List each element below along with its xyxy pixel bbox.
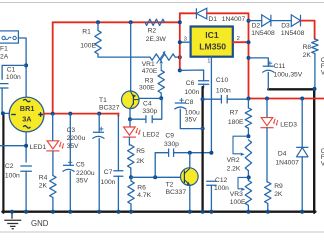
svg-text:LED1: LED1 — [30, 144, 47, 151]
node: rail / D4 — [300, 97, 304, 101]
node: C11 branch — [247, 56, 251, 60]
wire: base line to T2 — [131, 176, 182, 178]
node: ADJ / C12 / C9 line — [209, 151, 213, 155]
label D3 1N5408 — [281, 23, 305, 37]
resistor R8 — [312, 39, 318, 54]
svg-text:C8: C8 — [185, 99, 194, 106]
wire: bus to C10 — [203, 98, 222, 100]
svg-text:100n: 100n — [101, 179, 116, 186]
svg-text:100n: 100n — [216, 88, 231, 95]
label R4 2K — [39, 175, 48, 190]
node: VR2 / VR3 / wiper — [247, 175, 251, 179]
wire: T1 emitter column — [130, 22, 132, 91]
svg-text:VR3: VR3 — [230, 191, 243, 198]
svg-text:3A: 3A — [22, 115, 32, 124]
label C12 100n — [214, 177, 229, 192]
wire: C4 up to base node — [152, 98, 162, 119]
label R9 2K — [274, 183, 283, 198]
svg-text:R7: R7 — [230, 109, 239, 116]
node: C8 tap on bus — [201, 127, 205, 131]
wire: C3 to ground — [98, 139, 100, 212]
node: rail / T1 emitter — [129, 20, 133, 24]
wire: R8 to ground bus — [314, 54, 316, 89]
svg-text:1: 1 — [207, 58, 210, 64]
svg-text:180E: 180E — [228, 119, 244, 126]
node: rail / R1 — [96, 20, 100, 24]
node: VR1 right / input line — [175, 56, 180, 58]
node: C9 tap — [153, 175, 157, 179]
svg-text:35V: 35V — [185, 116, 197, 123]
svg-text:2K: 2K — [303, 52, 312, 59]
svg-text:LED3: LED3 — [280, 122, 297, 129]
capacitor C4 — [146, 115, 152, 123]
capacitor C1 — [0, 84, 9, 88]
svg-text:330p: 330p — [142, 108, 157, 115]
svg-text:BC327: BC327 — [99, 104, 120, 111]
node: +rail / C5 — [97, 112, 101, 116]
svg-text:100E: 100E — [230, 199, 246, 206]
node: R7 / VR2 / wiper — [246, 134, 250, 138]
svg-text:C10: C10 — [216, 77, 229, 84]
wire: LED1 branch — [52, 114, 54, 141]
capacitor C2 — [20, 166, 32, 171]
label C3 2200u 35V — [67, 127, 86, 150]
wire: C9 branch up — [155, 153, 168, 178]
svg-text:D4: D4 — [278, 150, 287, 157]
resistor R6 — [130, 177, 132, 181]
node: T1 base / R3 / C4 — [159, 96, 163, 100]
diode D3 — [291, 15, 300, 27]
resistor R4 — [50, 176, 56, 198]
svg-text:C5: C5 — [76, 162, 85, 169]
label C5 2200u 35V — [76, 162, 95, 185]
wire: VR3 to ground — [247, 205, 249, 211]
capacitor C11 (electrolytic) — [262, 61, 274, 73]
wire: red left loop vertical — [52, 22, 54, 113]
label R2 2E,3W — [146, 27, 167, 43]
label C6 100n — [184, 80, 199, 96]
svg-text:100n: 100n — [214, 185, 229, 192]
wire: AC input (bottom line) — [0, 145, 26, 147]
cut-off text right edge (upper) — [321, 57, 324, 77]
node: D2 branch — [247, 19, 251, 23]
label D4 1N4007 — [275, 150, 299, 166]
label R7 180E — [228, 109, 244, 125]
wire: red input riser (D1/rail to IC1 input) — [179, 13, 181, 70]
svg-text:BR1: BR1 — [20, 104, 35, 113]
svg-text:2.2K: 2.2K — [227, 165, 241, 172]
wire: R3 bottom to T1 base node — [160, 93, 162, 98]
svg-text:C4: C4 — [143, 100, 152, 107]
svg-text:330p: 330p — [164, 141, 179, 148]
svg-text:2A: 2A — [0, 53, 9, 60]
svg-text:35V: 35V — [67, 143, 79, 150]
node: pin3 tap — [178, 40, 182, 44]
resistor R7 — [247, 99, 249, 108]
svg-text:100n: 100n — [6, 74, 21, 81]
svg-text:R2: R2 — [148, 27, 157, 34]
svg-text:C1: C1 — [7, 67, 16, 74]
node: T2 collector / C9 / ADJ line — [188, 151, 192, 155]
label C1 100n — [6, 67, 21, 81]
label C11 100u,35V — [274, 63, 303, 79]
svg-text:R1: R1 — [82, 29, 91, 36]
resistor R3 with wiper arrow to VR1 — [158, 60, 164, 93]
capacitor C10 — [221, 95, 227, 104]
wire: LED1 to R4 — [52, 151, 54, 176]
wire: C8 negative to bus — [180, 109, 202, 128]
wire: R5 to junction — [130, 168, 132, 177]
svg-text:100n: 100n — [184, 89, 199, 96]
transistor T1 BC327 — [122, 91, 140, 109]
label R1 100E — [80, 29, 96, 50]
svg-text:100E: 100E — [80, 43, 96, 50]
capacitor C9 — [169, 149, 174, 157]
wire: R9 to ground — [267, 204, 269, 212]
label R3 300E — [139, 77, 155, 91]
wire: T1 collector down — [129, 108, 131, 119]
wire: BR1 minus to ground frame — [1, 111, 9, 115]
svg-text:1N4007: 1N4007 — [275, 159, 299, 166]
svg-text:1N5408: 1N5408 — [251, 30, 275, 37]
wire: R7 to VR2 — [247, 128, 249, 136]
diode D2 — [262, 15, 271, 27]
svg-text:BC337: BC337 — [166, 189, 187, 196]
label C4 330p — [142, 100, 157, 115]
svg-text:2K: 2K — [136, 158, 145, 165]
wire: red output rail — [249, 98, 324, 100]
wire: T2 emitter to ground — [189, 185, 191, 212]
svg-text:100u,35V: 100u,35V — [274, 72, 303, 79]
wire: red +V rail from BR1 — [44, 113, 118, 115]
svg-text:C12: C12 — [215, 177, 228, 184]
wire: to C1 — [2, 65, 26, 79]
node: rail / D1 riser — [178, 20, 182, 24]
capacitor C6 — [198, 81, 209, 84]
svg-text:C11: C11 — [274, 63, 286, 70]
capacitor C5 (electrolytic) — [63, 160, 75, 172]
label C8 100u 35V — [185, 99, 200, 123]
cut-off text right edge (lower) — [321, 148, 324, 168]
wire: D2 to D3 — [271, 20, 291, 22]
svg-text:R6: R6 — [137, 184, 146, 191]
node: pin2 — [247, 40, 251, 44]
wire: D1 right (red) — [207, 13, 249, 20]
LED LED3 — [261, 118, 273, 126]
svg-text:LM350: LM350 — [199, 41, 226, 51]
wire: red top rail — [53, 21, 180, 23]
capacitor C7 — [113, 171, 123, 176]
wire: BR1 AC bottom down — [24, 132, 28, 162]
svg-text:C7: C7 — [104, 169, 113, 176]
wire: C5 to ground — [69, 171, 71, 211]
node: C1 tap — [24, 63, 28, 67]
wire: LED3 to R9 — [266, 128, 269, 182]
svg-text:R4: R4 — [39, 175, 48, 182]
wire: to LED2 — [129, 119, 131, 127]
fuse F1 — [0, 31, 18, 43]
LED LED2 — [124, 127, 136, 135]
wire: LED3 branch — [266, 99, 268, 118]
ground symbol — [4, 210, 21, 229]
label D1 1N4007 — [208, 16, 245, 23]
wire: C6 to black ADJ-ground line — [203, 84, 205, 88]
diode D4 (pointing up) — [296, 147, 308, 157]
svg-text:C6: C6 — [186, 80, 195, 87]
resistor R9 — [265, 182, 271, 204]
wire: red output column — [248, 21, 250, 99]
label R5 2K — [136, 148, 145, 165]
wire: to D2 — [249, 20, 262, 22]
node: +rail / LED1 — [51, 112, 55, 116]
wire: +rail corner down to C7 — [117, 113, 119, 117]
wire: IC1 pin 1 adj down — [210, 57, 212, 153]
label R6 4.7K — [137, 184, 151, 199]
capacitor C12 — [206, 181, 216, 185]
ground bus: bottom rail — [2, 210, 315, 212]
svg-text:4.7K: 4.7K — [137, 192, 151, 199]
svg-text:LED2: LED2 — [143, 131, 160, 138]
resistor R5 — [128, 145, 134, 168]
ground bus: right vertical — [313, 89, 315, 213]
svg-text:T2: T2 — [166, 181, 174, 188]
svg-text:GND: GND — [31, 219, 49, 228]
label F1 2A — [0, 46, 9, 61]
wire: C3 branch — [98, 114, 100, 133]
node: C6 / C8 tap — [178, 68, 182, 72]
op-amp/regulator IC1 LM350 — [191, 27, 233, 57]
preset VR3 (wiper tied to top) — [238, 177, 252, 205]
wire: IC1 pin 3 input — [180, 41, 191, 43]
wire: to C4 — [130, 118, 146, 120]
node: R5 / R6 / T2 base — [129, 175, 133, 179]
preset VR1 — [150, 51, 175, 64]
svg-text:C3: C3 — [67, 127, 76, 134]
wire: C1 to 0V node — [1, 88, 3, 113]
label T2 BC337 — [166, 181, 187, 196]
svg-text:C9: C9 — [165, 132, 174, 139]
ground bus: left vertical — [2, 113, 4, 213]
wire: VR2 to VR3 — [247, 171, 249, 181]
wire: T2 collector up — [189, 153, 191, 168]
svg-text:VR2: VR2 — [227, 157, 240, 164]
svg-text:2200u: 2200u — [67, 135, 86, 142]
svg-text:2200u: 2200u — [76, 170, 95, 177]
svg-text:2K: 2K — [274, 191, 283, 198]
wire: R1 top lead — [97, 22, 99, 30]
wire: R1 bottom to VR1 — [98, 54, 150, 57]
wire: C12 to ground — [210, 185, 212, 211]
wire: R6 to ground — [130, 204, 132, 212]
svg-text:R5: R5 — [136, 148, 145, 155]
transistor T2 BC337 — [181, 168, 199, 186]
svg-text:C2: C2 — [5, 163, 14, 170]
ground wire: C6/C8 vertical bus — [201, 87, 203, 212]
label C9 330p — [164, 132, 179, 148]
svg-text:470E: 470E — [142, 68, 158, 75]
preset VR2 (wiper tied to top) — [233, 136, 252, 170]
wire: fuse output down to BR1 AC top — [18, 38, 26, 97]
wire: C11 negative to ground bus — [267, 72, 269, 89]
node: ground rail taps — [24, 210, 28, 214]
capacitor C3 (electrolytic) — [92, 127, 104, 139]
wire: T1 base to node — [139, 97, 161, 99]
svg-text:300E: 300E — [139, 84, 155, 91]
svg-text:35V: 35V — [76, 178, 88, 185]
wire: C2 to ground — [25, 171, 27, 211]
svg-text:D1: D1 — [208, 16, 217, 23]
svg-text:D3: D3 — [281, 23, 290, 30]
wire: C5 branch — [69, 114, 71, 166]
capacitor C8 (electrolytic) — [174, 98, 186, 109]
svg-text:D2: D2 — [252, 23, 261, 30]
svg-text:1N5408: 1N5408 — [281, 30, 305, 37]
wire: C6/C8 branch — [180, 70, 204, 81]
node: rail / R7 column — [247, 97, 251, 101]
wire: IC1 pin 2 output — [233, 41, 249, 43]
svg-text:2: 2 — [237, 36, 240, 42]
ground bus: upper right horizontal (C11/R8 ground) — [268, 88, 314, 90]
wire: output to C11 — [249, 58, 269, 66]
node: +rail / C3 — [68, 112, 72, 116]
node: rail / LED3 — [265, 97, 269, 101]
label R8 2K — [303, 44, 312, 59]
svg-text:F1: F1 — [0, 46, 8, 53]
label C10 100n — [216, 77, 231, 95]
wire: LED2 to R5 — [129, 137, 130, 145]
svg-text:T1: T1 — [99, 97, 107, 104]
LED LED1 — [47, 141, 59, 149]
label D2 1N5408 — [251, 23, 275, 37]
svg-text:2K: 2K — [39, 182, 48, 189]
wire: C10 to output column — [227, 98, 248, 100]
resistor R2 (on top rail) — [145, 19, 165, 25]
label VR2 2.2K — [227, 157, 241, 172]
wire: C9 to T2 collector node and ADJ column — [174, 152, 212, 154]
wire: C7 to ground — [117, 176, 119, 212]
svg-text:R9: R9 — [274, 183, 283, 190]
label T1 BC327 — [99, 97, 120, 111]
wire: D1 left (red) — [180, 12, 196, 14]
node: C10 tap on bus — [201, 97, 205, 101]
label C2 100n — [5, 163, 20, 179]
label VR3 100E — [230, 191, 246, 206]
bridge rectifier BR1 — [9, 97, 44, 132]
svg-text:100n: 100n — [5, 172, 20, 179]
wire: D4 to ground — [301, 157, 303, 212]
diode D1 — [196, 8, 206, 19]
wire: D3 to output corner (red) — [301, 21, 315, 39]
wire: R4 to ground — [52, 198, 54, 212]
label C7 100n — [101, 169, 116, 186]
label VR1 470E — [142, 61, 158, 75]
svg-text:R8: R8 — [303, 44, 312, 51]
node: T1 collector / C4 / LED2 — [128, 117, 132, 121]
svg-text:2E,3W: 2E,3W — [146, 36, 167, 43]
svg-text:IC1: IC1 — [205, 30, 219, 40]
wire: D4 branch — [301, 99, 303, 148]
svg-text:3: 3 — [184, 37, 187, 43]
resistor R1 — [95, 31, 101, 55]
svg-text:R3: R3 — [145, 77, 154, 84]
svg-text:1N4007: 1N4007 — [222, 16, 246, 23]
